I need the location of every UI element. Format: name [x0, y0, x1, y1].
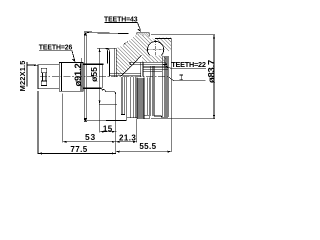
- bell outer cone top: [87, 33, 129, 34]
- svg-text:77.5: 77.5: [70, 145, 87, 154]
- svg-text:21.3: 21.3: [119, 133, 136, 142]
- inner spline fine lines: [143, 66, 168, 71]
- dim 53: [63, 132, 116, 143]
- spline section TEETH=26 body: [59, 62, 83, 91]
- bell face verticals bottom: [130, 77, 132, 118]
- ABS ring external stripes (bottom): [137, 78, 144, 119]
- outer race outline right: [155, 39, 171, 44]
- dim 77.5: [38, 145, 116, 155]
- svg-text:ø83.7: ø83.7: [206, 60, 217, 83]
- inner race left face: [140, 62, 142, 76]
- svg-text:ø91.2: ø91.2: [72, 64, 83, 87]
- bell outer cone bottom (external view): [87, 119, 127, 121]
- boot groove land bottom edge: [99, 103, 117, 105]
- bell wall hatch (section, top half): [116, 34, 154, 76]
- I leader: [169, 77, 206, 81]
- label M22X1.5: [18, 60, 38, 91]
- bell cavity boundary line: [122, 55, 142, 76]
- outer race hatch right of ball: [154, 38, 171, 53]
- I symbol: [179, 75, 183, 80]
- svg-text:53: 53: [85, 132, 96, 142]
- output shaft verticals (section top): [162, 56, 164, 117]
- bell open face verticals (right, bottom external): [150, 66, 152, 116]
- boot groove valley bottom: [101, 89, 115, 120]
- shaft end face: [170, 39, 172, 118]
- label TEETH=26: [39, 45, 76, 63]
- svg-text:55.5: 55.5: [139, 142, 156, 151]
- bell shoulder verticals bottom: [121, 77, 123, 115]
- ABS ring sectioned rect (top): [137, 33, 150, 37]
- ABS ring teeth serration (side view, top): [120, 45, 124, 48]
- ball: [148, 42, 164, 58]
- dust shield disc (dia 91.2): [83, 32, 85, 123]
- extension lines: [38, 91, 171, 154]
- svg-text:15: 15: [103, 124, 113, 133]
- spline chamfer lines: [60, 62, 62, 91]
- dia 83.7 dimension: [151, 35, 217, 119]
- dim 15: [100, 124, 117, 133]
- dim 21.3: [116, 133, 137, 143]
- label TEETH=22: [163, 60, 206, 69]
- shaft inner lines near center: [110, 73, 141, 75]
- svg-text:TEETH=22: TEETH=22: [171, 60, 205, 69]
- inner cavity verticals: [114, 48, 116, 76]
- inner race hatch band below ball: [142, 56, 166, 62]
- ball center cross: [155, 40, 157, 59]
- label TEETH=43: [104, 16, 141, 32]
- bell face step bottom: [126, 77, 128, 121]
- hub end face: [101, 65, 103, 89]
- dim 55.5: [116, 142, 172, 152]
- centerline: [40, 76, 169, 78]
- dim arrows dia91.2: [84, 32, 86, 36]
- boot groove land top edge: [97, 47, 120, 49]
- threaded stub body: [38, 65, 59, 89]
- stub inner spool detail: [41, 68, 46, 85]
- neck face top: [105, 48, 108, 63]
- race lines: [130, 61, 166, 63]
- svg-text:M22X1.5: M22X1.5: [18, 60, 27, 91]
- ABS ring smooth band bottom: [147, 78, 149, 116]
- shaft silhouette bars: [83, 63, 103, 65]
- svg-text:ø55: ø55: [89, 67, 99, 82]
- dia 55 dimension: [99, 48, 101, 104]
- threaded output section external (bottom right): [154, 116, 168, 117]
